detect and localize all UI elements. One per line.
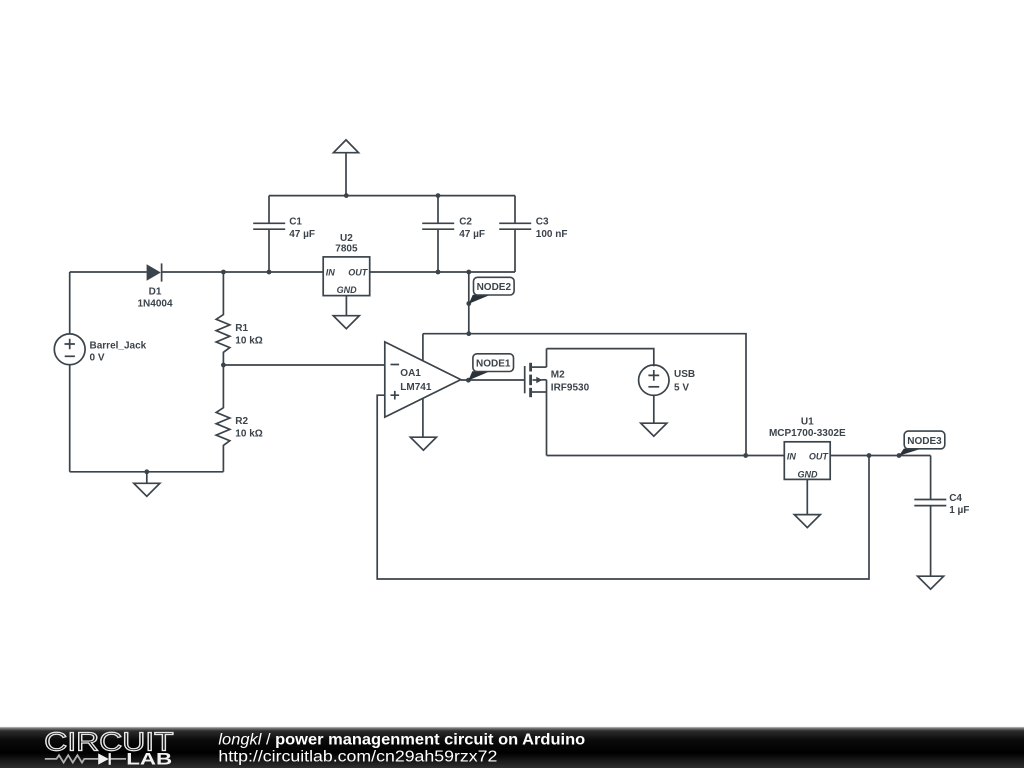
svg-text:7805: 7805 [335, 244, 358, 255]
svg-text:1N4004: 1N4004 [137, 299, 172, 310]
svg-text:5 V: 5 V [674, 382, 689, 393]
svg-text:M2: M2 [551, 369, 565, 380]
svg-text:GND: GND [337, 285, 358, 295]
svg-text:NODE2: NODE2 [477, 282, 512, 293]
svg-text:LM741: LM741 [400, 382, 432, 393]
svg-text:C4: C4 [949, 493, 962, 504]
svg-text:OUT: OUT [348, 268, 369, 278]
svg-text:U1: U1 [801, 416, 814, 427]
svg-text:10 kΩ: 10 kΩ [235, 336, 262, 347]
svg-text:longkl / power managenment cir: longkl / power managenment circuit on Ar… [218, 731, 585, 748]
svg-text:MCP1700-3302E: MCP1700-3302E [769, 428, 846, 439]
svg-text:R1: R1 [235, 323, 248, 334]
svg-text:USB: USB [674, 369, 695, 380]
svg-text:R2: R2 [235, 416, 248, 427]
svg-text:http://circuitlab.com/cn29ah59: http://circuitlab.com/cn29ah59rzx72 [218, 749, 497, 766]
svg-text:C1: C1 [289, 217, 302, 228]
svg-text:1 µF: 1 µF [949, 505, 969, 516]
svg-text:LAB: LAB [126, 751, 172, 768]
svg-text:0 V: 0 V [90, 352, 105, 363]
svg-text:100 nF: 100 nF [536, 229, 568, 240]
svg-text:IN: IN [326, 268, 336, 278]
svg-text:10 kΩ: 10 kΩ [235, 429, 262, 440]
svg-text:OA1: OA1 [400, 368, 421, 379]
svg-text:NODE3: NODE3 [907, 436, 942, 447]
svg-text:U2: U2 [340, 233, 353, 244]
svg-text:NODE1: NODE1 [476, 359, 511, 370]
svg-text:GND: GND [798, 470, 819, 480]
svg-text:OUT: OUT [809, 451, 830, 461]
svg-text:IN: IN [787, 451, 797, 461]
svg-text:C3: C3 [536, 217, 549, 228]
svg-text:C2: C2 [459, 217, 472, 228]
svg-text:47 µF: 47 µF [289, 229, 315, 240]
svg-text:47 µF: 47 µF [459, 229, 485, 240]
svg-text:IRF9530: IRF9530 [551, 382, 590, 393]
svg-text:Barrel_Jack: Barrel_Jack [90, 340, 147, 351]
svg-text:D1: D1 [149, 287, 162, 298]
